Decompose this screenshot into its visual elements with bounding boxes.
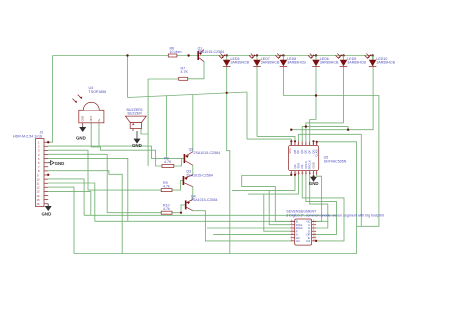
svg-text:SN74HC595N: SN74HC595N — [324, 159, 347, 163]
wire diagonal run — [128, 92, 248, 98]
shift register U5 SN74HC595N — [288, 141, 347, 175]
wire U5 bottom pin 2 chain — [232, 175, 295, 225]
LED7 — [275, 54, 306, 67]
svg-text:J2: J2 — [40, 131, 44, 135]
wire U5 bottom pin 3 chain — [248, 175, 298, 231]
wire U5 pin 6 net to LED8 — [310, 120, 316, 142]
wire LED10 net row — [291, 56, 373, 130]
svg-text:GND: GND — [132, 143, 142, 148]
wire LED9 cathode drop — [343, 67, 345, 123]
wire U5 bottom pin 8 chain — [316, 175, 322, 222]
wire LED5 cathode to diagonal — [227, 67, 230, 254]
wire seven segment row L3 — [207, 227, 291, 229]
wire U5 pin 2 net — [257, 136, 295, 141]
wire bottom bus — [74, 142, 357, 254]
wire seven segment row L5 — [213, 233, 290, 235]
svg-text:2SA1015-C2584: 2SA1015-C2584 — [194, 151, 221, 155]
transistor Q3 — [183, 170, 213, 187]
wire U5 pin 5 net to LED9 — [306, 123, 344, 141]
LED5 — [219, 54, 250, 67]
wire Q3 collector down to Q4 emitter — [192, 187, 194, 200]
wire header pin 11 net — [48, 183, 95, 221]
svg-text:3AR89HCB: 3AR89HCB — [261, 61, 280, 65]
LED8 — [308, 54, 339, 67]
svg-text:4.7k: 4.7k — [163, 185, 170, 189]
wire U5 pin 7 stub — [313, 141, 315, 145]
svg-text:TSOP1856: TSOP1856 — [89, 90, 107, 94]
wire U5 pin 4 net — [302, 127, 348, 142]
resistor R6 — [168, 47, 181, 58]
wire right U loop — [283, 96, 379, 227]
IR receiver U4 TSOP1856 — [73, 86, 107, 125]
LED9 — [336, 54, 367, 67]
wire header pin 3 net to R9 — [48, 150, 161, 190]
wire U5 bottom pin 1 chain — [242, 175, 292, 222]
svg-text:D4: D4 — [307, 239, 311, 243]
svg-text:3AR89HCB: 3AR89HCB — [231, 61, 250, 65]
wire right mid drop — [360, 134, 362, 226]
svg-text:2SA1015-C2584: 2SA1015-C2584 — [191, 198, 218, 202]
wire header pin 4 net to R10 — [48, 154, 161, 212]
wire LED7 cathode drop — [256, 67, 258, 137]
resistor R10 — [161, 204, 172, 215]
wire Q2 collector to Q3 emitter — [192, 165, 194, 175]
transistor Q2 — [184, 148, 220, 166]
wire long bus row A — [84, 214, 336, 216]
wire TSOP 5V pin drop — [98, 123, 100, 146]
wire U5 pin 8 net — [316, 142, 318, 146]
wire drop from top rail junction — [127, 56, 129, 98]
svg-text:4.7k: 4.7k — [163, 207, 170, 211]
svg-text:4.7K: 4.7K — [164, 160, 172, 164]
wire U5 bottom pin 7 to ground — [313, 175, 315, 177]
svg-text:GND: GND — [309, 181, 319, 186]
seven segment display — [286, 210, 384, 246]
LED10 — [365, 54, 396, 67]
wire R8 to Q2 base — [174, 158, 182, 166]
transistor Q4 — [185, 195, 218, 211]
wire header pin 13 net — [48, 191, 91, 215]
resistor R8 — [162, 157, 174, 168]
svg-text:G3: G3 — [296, 239, 300, 243]
LED6 — [249, 54, 280, 67]
wire U5 bottom pin 4 chain — [302, 175, 344, 241]
transistor Q1 — [197, 46, 224, 61]
svg-text:VCC: VCC — [288, 148, 292, 154]
svg-text:10 ohm: 10 ohm — [170, 50, 182, 54]
wire header pin 8 net — [48, 171, 122, 254]
svg-text:3AR89HCB: 3AR89HCB — [376, 61, 395, 65]
wire header pin 5 net — [48, 158, 128, 221]
wire to U5 pin 1 — [247, 139, 291, 145]
ground below buzzer — [132, 131, 142, 148]
ground flag at header pin 6 — [48, 161, 64, 166]
svg-text:3AR89HCB: 3AR89HCB — [320, 61, 339, 65]
wire header pin 2 net to R8 — [48, 146, 183, 158]
wire diagonal end drop — [246, 92, 248, 139]
resistor R9 — [161, 181, 172, 192]
svg-text:HDR-M-2.54 1x16: HDR-M-2.54 1x16 — [13, 135, 42, 139]
wire header pin 12 net — [48, 187, 74, 253]
svg-text:GND: GND — [81, 116, 85, 122]
wire R7 left run — [148, 78, 179, 80]
ground below header — [42, 204, 52, 217]
wire left drop to header pin 1 — [48, 56, 52, 143]
svg-text:5+: 5+ — [97, 118, 101, 121]
svg-text:3AR89HCB: 3AR89HCB — [287, 61, 306, 65]
wire TSOP OUT drop — [91, 123, 162, 166]
wire R7 left drop — [165, 96, 167, 159]
wire +V top rail — [53, 55, 373, 57]
wire R10 jog to Q4 base — [172, 205, 185, 213]
svg-text:GND: GND — [55, 161, 65, 166]
svg-text:CLKB: CLKB — [315, 149, 319, 156]
wire Q4 collector to seven segment pin L7 — [193, 211, 291, 241]
svg-text:OUT: OUT — [89, 116, 93, 122]
svg-text:2SA1015-C2584: 2SA1015-C2584 — [198, 50, 225, 54]
wire Q2 emitter up to diagonal — [192, 95, 194, 152]
svg-text:4.7K: 4.7K — [181, 70, 189, 74]
wire buzzer plus to R8 row — [141, 79, 148, 166]
buzzer BUZZER1 — [125, 108, 146, 131]
svg-text:GND: GND — [76, 136, 86, 141]
wire Q1 collector to R7 — [188, 62, 204, 79]
header pin stubs and numbers — [37, 141, 49, 207]
svg-text:GND: GND — [312, 162, 316, 168]
wire LED8 cathode drop — [315, 67, 317, 120]
wire LED6 cathode drop — [282, 67, 284, 96]
wire U5 bottom pin 6 chain — [310, 175, 328, 228]
svg-text:BUZZER: BUZZER — [128, 112, 143, 116]
svg-text:3 Digit,0.3", common anode, se: 3 Digit,0.3", common anode, seven segmen… — [286, 214, 384, 218]
ground below U4 — [76, 125, 86, 140]
wire R9 jog to Q3 base — [172, 181, 183, 191]
wire U5 pin 3 net — [298, 134, 361, 141]
svg-text:2SA1015-C2584: 2SA1015-C2584 — [186, 173, 213, 177]
header J2 HDR-M-2.54 1x16 — [13, 131, 44, 207]
resistor R7 — [179, 67, 189, 81]
wire long bus row B — [95, 220, 328, 222]
wire header pin 10 net — [48, 179, 84, 215]
ground below U5 — [309, 177, 319, 186]
svg-text:GND: GND — [42, 212, 52, 217]
svg-text:3AR89HCB: 3AR89HCB — [347, 61, 366, 65]
wire U5 bottom pin 5 chain — [306, 175, 337, 235]
